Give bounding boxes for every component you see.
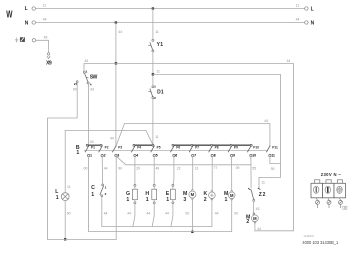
svg-text:10: 10: [252, 153, 256, 157]
svg-text:44: 44: [215, 212, 219, 216]
svg-text:P1: P1: [91, 145, 95, 149]
svg-text:44: 44: [146, 212, 150, 216]
svg-text:11: 11: [271, 153, 275, 157]
svg-text:11: 11: [156, 69, 160, 73]
svg-text:1: 1: [90, 153, 92, 157]
wire bus3 y239.3: [48, 238, 117, 240]
bar P4-P5: [134, 144, 153, 146]
pump K2: [204, 190, 216, 203]
wire drop from contact P5: [153, 157, 155, 185]
svg-text:22: 22: [177, 166, 181, 170]
svg-text:1: 1: [76, 150, 79, 156]
svg-text:Z2: Z2: [259, 192, 266, 198]
svg-text:M: M: [230, 193, 234, 198]
wire 11 line horizontal y74: [153, 75, 281, 188]
svg-text:6: 6: [175, 153, 177, 157]
svg-text:44: 44: [165, 212, 169, 216]
svg-text:09: 09: [236, 166, 240, 170]
svg-text:N: N: [25, 20, 29, 26]
bridge wire N-P3 to P11: [116, 124, 270, 147]
svg-text:44: 44: [84, 59, 88, 63]
svg-text:44: 44: [287, 59, 291, 63]
svg-text:43: 43: [256, 207, 260, 211]
svg-text:1: 1: [225, 197, 228, 203]
svg-text:00: 00: [234, 212, 238, 216]
svg-text:P2: P2: [105, 145, 109, 149]
svg-text:44: 44: [110, 136, 114, 140]
wire D1 to bar P4-P5: [152, 99, 154, 145]
svg-text:Y1: Y1: [157, 42, 164, 48]
svg-text:5: 5: [156, 153, 158, 157]
svg-text:M: M: [191, 192, 195, 197]
terminal N left: [25, 20, 36, 26]
contact P8 of timer B1: [209, 144, 219, 157]
node junction M3 bus2: [191, 231, 193, 233]
motor M3: [183, 190, 196, 204]
wire L vertical top to Y1: [152, 9, 154, 40]
wire G1 drop: [133, 204, 135, 227]
svg-text:P9: P9: [234, 145, 238, 149]
svg-text:11: 11: [43, 4, 47, 8]
svg-text:N: N: [311, 21, 315, 27]
svg-text:C: C: [91, 185, 95, 191]
wire drop from contact P7: [191, 157, 193, 191]
connector 230V: [311, 172, 347, 209]
svg-text:L: L: [25, 6, 28, 12]
svg-text:D1: D1: [157, 90, 164, 96]
svg-text:13: 13: [195, 166, 199, 170]
contact P9 of timer B1: [228, 144, 238, 157]
svg-text:44: 44: [104, 212, 108, 216]
svg-text:44: 44: [118, 30, 122, 34]
svg-text:P8: P8: [215, 145, 219, 149]
motor M2: [246, 213, 258, 225]
svg-text:9: 9: [233, 153, 235, 157]
svg-text:3: 3: [183, 197, 186, 203]
svg-text:1: 1: [91, 192, 94, 198]
wire drop from contact P1: [88, 157, 90, 227]
node junction L1 bus3: [64, 238, 66, 240]
svg-text:1: 1: [105, 185, 107, 189]
svg-text:P10: P10: [253, 145, 259, 149]
svg-text:X9: X9: [46, 61, 52, 67]
svg-text:WHIRLPOOL: WHIRLPOOL: [304, 234, 316, 238]
node junction L line x153: [152, 7, 154, 9]
contact P11 of timer B1: [267, 145, 279, 157]
bar P1-P2: [87, 144, 101, 146]
wire drop from contact P11: [270, 157, 281, 164]
svg-text:W: W: [6, 10, 13, 21]
svg-text:2: 2: [105, 192, 107, 196]
wire C1 drop: [101, 197, 103, 227]
svg-text:11: 11: [155, 30, 159, 34]
wire SW left contact to left rail: [48, 83, 78, 240]
wire drop from contact P4: [134, 157, 136, 185]
contact P7 of timer B1: [189, 144, 199, 157]
svg-text:SW: SW: [90, 74, 98, 80]
switch Z2: [248, 188, 265, 201]
wire N vertical x116: [115, 23, 117, 147]
svg-text:P5: P5: [157, 145, 161, 149]
svg-text:230V N ~: 230V N ~: [321, 172, 342, 177]
svg-text:L: L: [311, 7, 314, 13]
wire drop from contact P8: [211, 157, 213, 192]
svg-text:E: E: [166, 191, 170, 197]
wire 44 line horizontal y63: [84, 64, 294, 231]
svg-text:1: 1: [154, 85, 156, 89]
wire M2 bottom to 44 return: [254, 222, 256, 231]
svg-text:44: 44: [264, 119, 268, 123]
svg-text:44: 44: [257, 227, 261, 231]
wire Z2 to M2: [253, 201, 255, 213]
svg-text:P6: P6: [176, 145, 180, 149]
wire drop from contact P3: [115, 157, 117, 240]
svg-text:1: 1: [56, 195, 59, 201]
wire Y1 to D1: [152, 52, 154, 86]
svg-text:77: 77: [214, 166, 218, 170]
node junction 44-line x116: [115, 62, 117, 64]
wire load bus y226: [102, 225, 212, 227]
svg-text:H: H: [145, 191, 149, 197]
wire bus2 y231.8: [88, 226, 231, 232]
svg-text:90: 90: [118, 166, 122, 170]
svg-text:90: 90: [73, 87, 77, 91]
terminal N right: [305, 21, 315, 27]
wire c3 diagonal to 164.8 rail: [117, 157, 251, 165]
wire SW to contact1 top: [87, 84, 89, 146]
svg-text:2: 2: [154, 96, 156, 100]
wire contact rail y150: [84, 150, 267, 152]
heater E1: [166, 184, 176, 203]
svg-text:45: 45: [44, 35, 48, 39]
svg-text:1: 1: [126, 197, 129, 203]
contact P6 of timer B1: [171, 144, 181, 157]
contact P3 of timer B1: [113, 145, 123, 157]
svg-text:44: 44: [43, 18, 47, 22]
heater G1: [126, 184, 137, 203]
wire drop from contact P6: [172, 157, 175, 185]
svg-text:M: M: [224, 191, 228, 197]
wire K2 drop: [211, 199, 213, 227]
wire drop from contact P10: [250, 157, 252, 188]
svg-text:00: 00: [185, 212, 189, 216]
svg-text:43: 43: [90, 140, 94, 144]
svg-text:90: 90: [67, 212, 71, 216]
svg-text:11: 11: [155, 135, 159, 139]
wire M3 drop: [191, 198, 193, 232]
contact P1 of timer B1: [85, 144, 95, 157]
svg-text:P4: P4: [137, 145, 141, 149]
contact P5 of timer B1: [151, 144, 161, 157]
timer block B1 labels: [76, 145, 80, 156]
terminal L left: [25, 6, 36, 12]
svg-text:1: 1: [146, 197, 149, 203]
switch SW: [73, 70, 98, 92]
svg-text:2: 2: [246, 219, 249, 225]
wire drop from contact P2: [101, 157, 103, 184]
door switch D1: [149, 85, 164, 101]
svg-text:4: 4: [90, 83, 92, 87]
valve Y1: [149, 39, 164, 52]
contact P2 of timer B1: [99, 144, 109, 157]
svg-text:43: 43: [90, 87, 94, 91]
svg-text:2: 2: [204, 197, 207, 203]
contact P10 of timer B1: [248, 144, 260, 157]
switch C1: [91, 184, 107, 198]
terminal L right: [305, 7, 314, 13]
motor M1: [224, 190, 235, 203]
svg-text:7: 7: [194, 153, 196, 157]
svg-text:1: 1: [166, 197, 169, 203]
svg-text:P3: P3: [118, 145, 122, 149]
svg-text:M: M: [253, 216, 257, 221]
svg-text:3: 3: [117, 153, 119, 157]
connector X9: [46, 53, 52, 67]
bridge wire L1 to P5 bar: [65, 131, 153, 145]
svg-text:44: 44: [104, 166, 108, 170]
wire drop from contact P9: [231, 157, 233, 192]
svg-text:K: K: [204, 191, 208, 197]
wire 45 to X9: [36, 40, 49, 52]
svg-text:49: 49: [156, 166, 160, 170]
svg-text:11: 11: [296, 4, 300, 8]
svg-text:55: 55: [252, 166, 256, 170]
svg-text:44: 44: [127, 212, 131, 216]
heater H1: [145, 184, 156, 203]
wire L line: [36, 8, 305, 10]
svg-text:8: 8: [214, 153, 216, 157]
node junction 11-line start: [152, 73, 154, 75]
contact P4 of timer B1: [132, 144, 142, 157]
lamp L1: [55, 131, 70, 240]
wire N line: [36, 22, 305, 24]
bar P6-P10: [173, 144, 251, 146]
svg-text:M: M: [183, 191, 187, 197]
wire E1 drop: [171, 204, 173, 227]
svg-text:90: 90: [271, 167, 275, 171]
svg-text:11: 11: [67, 185, 71, 189]
node junction N line x116: [115, 21, 117, 23]
terminal earth left: [15, 37, 35, 42]
svg-text:29: 29: [136, 166, 140, 170]
svg-text:4: 4: [136, 153, 138, 157]
svg-text:4000 103 31430B_1: 4000 103 31430B_1: [302, 240, 338, 245]
svg-text:2: 2: [104, 153, 106, 157]
wire M1 drop: [231, 199, 233, 232]
wire H1 drop: [152, 204, 154, 227]
svg-text:L: L: [55, 189, 59, 195]
svg-text:P7: P7: [195, 145, 199, 149]
svg-text:P11: P11: [272, 145, 278, 149]
svg-text:G: G: [126, 191, 130, 197]
svg-text:11: 11: [261, 181, 265, 185]
svg-text:44: 44: [296, 18, 300, 22]
svg-text:1: 1: [86, 70, 88, 74]
svg-text:00: 00: [84, 166, 88, 170]
